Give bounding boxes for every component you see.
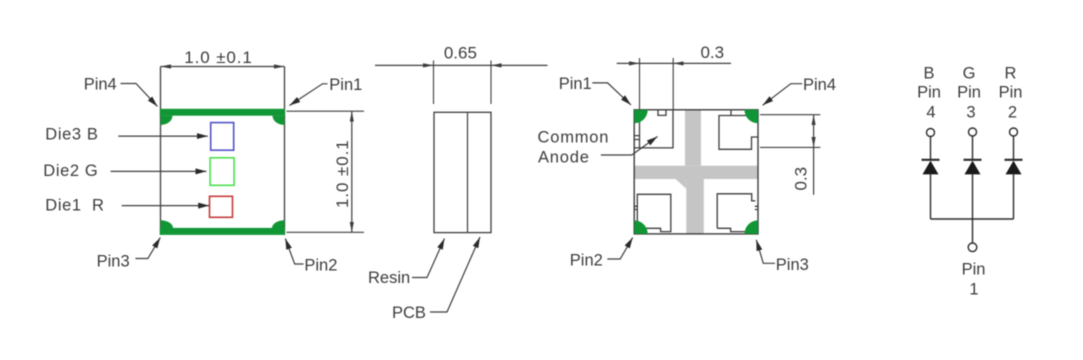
dimension arrow left xyxy=(161,66,223,68)
leader Pin4 (bottom view) xyxy=(763,84,803,106)
dimension arrow down xyxy=(351,173,353,232)
extension line pad left xyxy=(639,58,641,110)
green corner top-left xyxy=(634,110,648,124)
diode R triangle xyxy=(1006,161,1022,175)
svg-text:Pin4: Pin4 xyxy=(84,76,117,94)
dimension 1.0 ±0.1 vertical line xyxy=(351,111,353,232)
side view body outline xyxy=(434,112,491,232)
pad bottom-right outline xyxy=(717,194,758,232)
svg-text:Die1 R: Die1 R xyxy=(45,196,104,214)
wire pin3 to diode G xyxy=(972,136,974,159)
svg-text:B: B xyxy=(923,65,934,83)
dimension arrow toward left ext xyxy=(408,64,434,66)
wire pin4 to diode B xyxy=(930,137,932,160)
dimension arrow toward right ext xyxy=(491,64,517,66)
green corner top-right xyxy=(745,110,759,124)
die Die3 B blue square xyxy=(211,123,234,151)
green corner bottom-left xyxy=(634,220,648,234)
dimension 0.3 right arrow up xyxy=(813,115,815,131)
svg-text:Anode: Anode xyxy=(538,149,590,167)
extension line right pad top xyxy=(760,114,820,116)
svg-text:Pin: Pin xyxy=(917,84,941,102)
extension line right xyxy=(490,61,492,105)
svg-text:Pin2: Pin2 xyxy=(570,252,603,270)
svg-text:1: 1 xyxy=(969,281,978,299)
wire diode B to bus xyxy=(930,174,932,219)
svg-text:Pin: Pin xyxy=(962,261,986,279)
leader Pin3 (bottom view) xyxy=(756,240,775,263)
package right edge xyxy=(284,67,286,236)
wire pin2 to diode R xyxy=(1013,136,1015,159)
gray cross vertical bar lower xyxy=(686,179,704,233)
svg-text:Pin1: Pin1 xyxy=(329,76,362,94)
svg-text:G: G xyxy=(963,65,976,83)
extension line right pad bottom xyxy=(760,146,820,148)
svg-text:Pin2: Pin2 xyxy=(304,256,337,274)
extension line right bottom xyxy=(287,231,365,233)
package left edge xyxy=(160,67,162,236)
svg-text:4: 4 xyxy=(926,104,935,122)
dimension 0.3 arrow right xyxy=(673,62,696,64)
dimension 0.3 arrow left xyxy=(618,62,640,64)
pad bottom-left outline xyxy=(634,194,670,231)
die Die1 R red square xyxy=(210,196,233,217)
wire bus to pin1 terminal xyxy=(972,219,974,243)
top electrode green bar xyxy=(160,109,285,116)
green corner fillet top-right xyxy=(273,116,285,125)
wire diode G to bus xyxy=(972,174,974,219)
pad top-right outline xyxy=(719,110,758,149)
svg-text:PCB: PCB xyxy=(392,304,426,322)
svg-text:Resin: Resin xyxy=(368,269,410,287)
terminal circle pin4 xyxy=(927,129,935,137)
terminal circle pin2 xyxy=(1010,128,1018,136)
leader PCB xyxy=(430,237,480,312)
svg-text:Pin: Pin xyxy=(999,84,1023,102)
leader arrow Die2 G xyxy=(111,170,207,172)
svg-text:Common: Common xyxy=(538,129,610,147)
extension line pad right xyxy=(672,58,674,110)
diode G cathode bar xyxy=(964,159,982,161)
resin/PCB divider line xyxy=(467,112,469,232)
svg-text:Pin3: Pin3 xyxy=(776,256,809,274)
svg-text:Pin: Pin xyxy=(957,84,981,102)
leader arrow Die3 B xyxy=(118,135,208,137)
svg-text:Pin1: Pin1 xyxy=(559,75,592,93)
leader Common Anode xyxy=(601,137,658,156)
green corner bottom-right xyxy=(745,220,759,234)
svg-text:Pin4: Pin4 xyxy=(803,76,836,94)
wire diode R to bus xyxy=(1013,174,1015,219)
leader arrow Die1 R xyxy=(122,205,210,207)
diode B triangle xyxy=(923,161,939,175)
pad top-left outline xyxy=(634,110,673,148)
dimension 1.0 ±0.1 horizontal line xyxy=(161,66,285,68)
diode B cathode bar xyxy=(922,159,940,161)
extension line right top xyxy=(287,110,365,112)
leader Pin1 (bottom view) xyxy=(592,83,631,105)
dimension arrow right xyxy=(222,66,285,68)
extension line left xyxy=(433,61,435,105)
leader Pin2 xyxy=(285,239,303,265)
gray anode mark flare xyxy=(676,179,687,189)
svg-text:0.65: 0.65 xyxy=(444,44,477,63)
dimension 0.3 top line xyxy=(617,62,731,64)
leader Pin3 xyxy=(135,238,160,259)
dimension arrow up xyxy=(351,111,353,173)
dimension 0.65 line xyxy=(375,64,548,66)
common anode bus wire xyxy=(931,218,1014,220)
gray cross horizontal bar xyxy=(635,166,758,179)
dimension 0.3 right arrow down xyxy=(813,131,815,147)
diode R cathode bar xyxy=(1005,159,1023,161)
bottom view package outline xyxy=(634,110,758,234)
leader Pin4 xyxy=(121,84,158,107)
svg-text:Die2 G: Die2 G xyxy=(43,162,98,180)
terminal circle pin1 xyxy=(968,243,977,252)
gray cross vertical bar upper xyxy=(685,110,701,165)
diode G triangle xyxy=(965,161,981,175)
svg-text:3: 3 xyxy=(966,104,975,122)
bottom electrode green bar xyxy=(160,228,285,235)
leader Pin1 xyxy=(290,84,328,106)
svg-text:Die3 B: Die3 B xyxy=(45,125,98,143)
green corner fillet top-left xyxy=(161,116,173,125)
svg-text:0.3: 0.3 xyxy=(791,167,810,191)
leader Resin xyxy=(412,239,445,278)
svg-text:0.3: 0.3 xyxy=(700,43,724,62)
svg-text:2: 2 xyxy=(1008,104,1017,122)
svg-text:1.0 ±0.1: 1.0 ±0.1 xyxy=(184,48,253,67)
leader Pin2 (bottom view) xyxy=(607,238,632,260)
green corner fillet bottom-right xyxy=(272,220,285,228)
svg-text:R: R xyxy=(1005,65,1017,83)
terminal circle pin3 xyxy=(969,128,977,136)
die Die2 G green square xyxy=(210,158,234,186)
green corner fillet bottom-left xyxy=(161,220,174,228)
svg-text:Pin3: Pin3 xyxy=(97,252,130,270)
dimension 0.3 right vertical line xyxy=(813,115,815,195)
svg-text:1.0 ±0.1: 1.0 ±0.1 xyxy=(333,139,352,208)
